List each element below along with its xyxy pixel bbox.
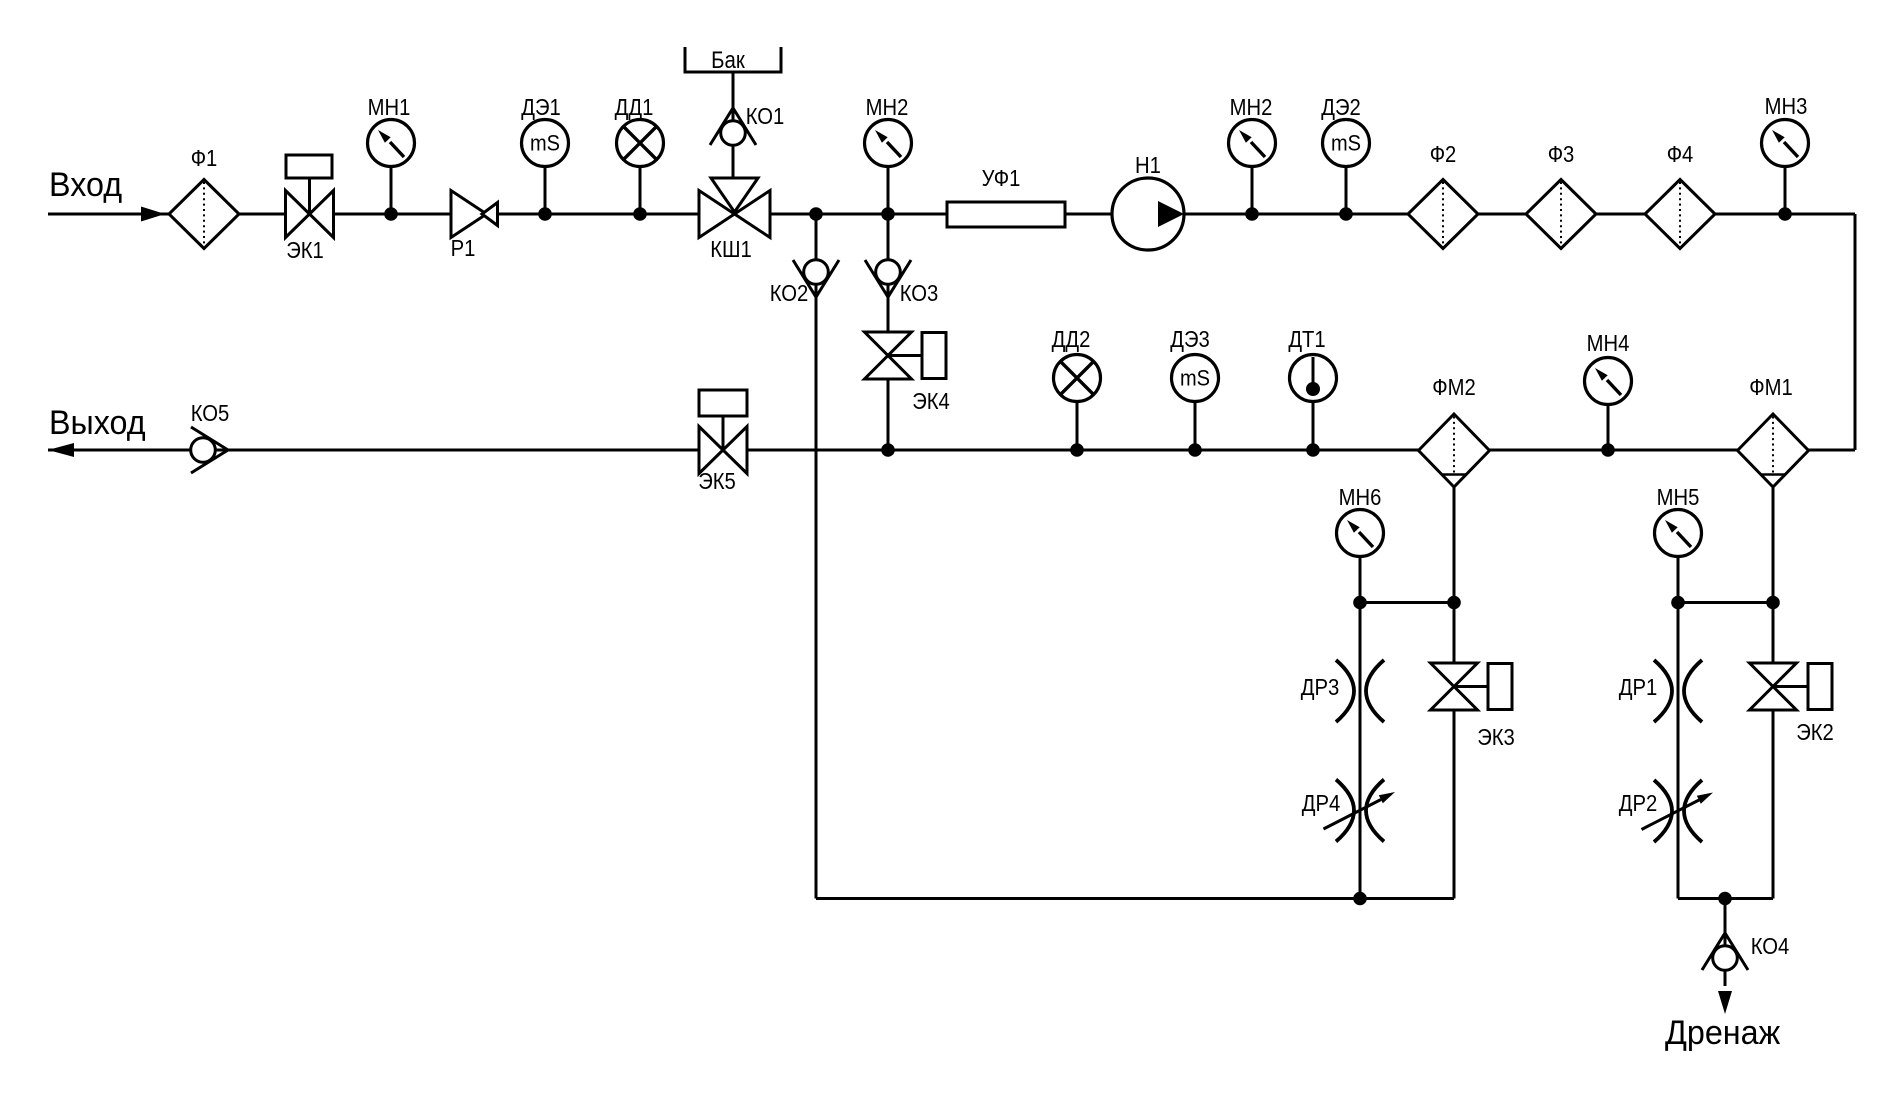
junction node МН1 [384,207,398,221]
svg-text:Ф3: Ф3 [1548,141,1575,167]
svg-text:Ф4: Ф4 [1667,141,1694,167]
valve ЭК3 actuator box [1488,664,1512,710]
filter Ф3 [1526,180,1596,249]
svg-text:Вход: Вход [49,166,122,204]
conductivity sensor ДЭ1 [522,120,569,167]
svg-text:МН6: МН6 [1339,484,1382,510]
svg-text:Н1: Н1 [1135,152,1161,178]
fixed throttle ДР1 [1654,660,1702,722]
svg-text:mS: mS [530,131,560,156]
wire vertical branch МН5/ДР1/ДР2 x=1678 [1677,557,1680,899]
svg-text:Бак: Бак [711,47,745,74]
wire stem ДЭ2 [1345,166,1348,214]
svg-text:ФМ1: ФМ1 [1749,374,1793,400]
wire stem ДЭ1 [544,166,547,214]
filter Ф4 [1645,180,1715,249]
junction node МН3 [1778,207,1792,221]
junction node ДТ1 [1306,443,1320,457]
svg-text:Р1: Р1 [451,235,476,261]
svg-text:ДД2: ДД2 [1052,326,1091,352]
junction node ФМ1 branch [1766,596,1780,610]
svg-text:КО5: КО5 [191,400,230,426]
conductivity sensor ДЭ2 [1323,120,1370,167]
junction node ДД1 [633,207,647,221]
fixed throttle ДР3 [1336,660,1384,722]
pressure gauge МН6 [1337,510,1384,557]
check valve КО1 [710,108,756,145]
svg-text:Дренаж: Дренаж [1665,1014,1780,1052]
wire tank stem (Бак to КШ1) [732,72,735,178]
valve ЭК3 body [1431,663,1478,710]
valve ЭК4 body [865,332,912,379]
junction node ДЭ2 [1339,207,1353,221]
conductivity sensor ДЭ3 [1172,355,1219,402]
wire right vertical riser x=1855 [1854,214,1857,450]
svg-text:ЭК5: ЭК5 [698,468,736,494]
wire stem МН2 (second) [1251,166,1254,214]
svg-text:ЭК4: ЭК4 [912,388,950,414]
valve ЭК1 body [286,191,334,238]
check valve КО2 [793,260,839,297]
svg-text:ЭК2: ЭК2 [1796,719,1834,745]
filter Ф1 [169,180,239,249]
wire output line (Выход) y=450 [48,449,1855,452]
reducer Р1 [451,191,498,238]
node Вход flow arrow [141,207,165,222]
pressure gauge МН1 [368,120,415,167]
wire main input line (Вход) y=214 [48,213,1855,216]
check valve КО3 [865,260,911,297]
wire vertical branch ФМ1/ЭК2 x=1773 [1772,487,1775,899]
wire stem ДД2 [1076,401,1079,450]
variable throttle ДР4 adjustment arrow [1324,792,1396,829]
svg-text:Выход: Выход [49,404,146,442]
wire vertical branch ФМ2/ЭК3 x=1454 [1453,487,1456,899]
valve ЭК5 actuator box [699,390,747,416]
junction node drain [1718,892,1732,906]
junction node КО2 branch [809,207,823,221]
pressure gauge МН4 [1585,358,1632,405]
junction node ДЭ3 [1188,443,1202,457]
pressure gauge МН2 [865,120,912,167]
wire drain stem to КО4 [1724,899,1727,987]
valve ЭК2 body [1750,663,1797,710]
svg-text:КО3: КО3 [900,280,939,306]
valve ЭК1 actuator box [286,155,332,178]
junction node МН4 [1601,443,1615,457]
svg-text:ДТ1: ДТ1 [1288,326,1325,352]
svg-text:ДД1: ДД1 [615,94,654,120]
pressure sensor ДД2 [1054,355,1101,402]
wire vertical branch through КО2 x=816 [815,214,818,899]
pressure gauge МН5 [1655,510,1702,557]
pump Н1 [1112,178,1184,250]
node Дренаж flow arrow [1718,991,1732,1014]
svg-text:МН4: МН4 [1587,330,1630,356]
valve ЭК4 actuator box [922,333,946,379]
junction node МН5 [1671,596,1685,610]
flow meter ФМ1 [1738,414,1809,487]
junction node МН2/КО3 [881,207,895,221]
pressure gauge МН3 [1762,120,1809,167]
check valve КО5 [191,427,228,473]
flow meter ФМ2 [1419,414,1490,487]
node Выход flow arrow [48,443,74,457]
pressure sensor ДД1 [617,120,664,167]
svg-text:ДЭ1: ДЭ1 [521,94,561,120]
junction node ДР4 bottom [1353,892,1367,906]
svg-text:ФМ2: ФМ2 [1432,374,1476,400]
wire bottom return line left y=898.5 [816,897,1454,900]
svg-text:МН2: МН2 [866,94,909,120]
svg-text:МН3: МН3 [1765,93,1808,119]
svg-text:Ф1: Ф1 [191,145,218,171]
wire stem ДТ1 [1312,401,1315,450]
svg-text:УФ1: УФ1 [982,165,1021,191]
svg-text:МН1: МН1 [368,94,411,120]
three-way valve КШ1 [699,178,770,238]
wire actuator stem ЭК5 [722,416,725,450]
valve ЭК5 body [699,427,747,474]
junction node МН6 [1353,596,1367,610]
pressure gauge МН2 (after pump) [1229,120,1276,167]
svg-text:КО1: КО1 [746,103,785,129]
svg-text:mS: mS [1180,366,1210,391]
svg-text:ДР3: ДР3 [1301,674,1340,700]
svg-text:МН5: МН5 [1657,484,1700,510]
tank Бак bracket [685,47,781,72]
variable throttle ДР2 [1654,780,1702,842]
junction node ЭК4 [881,443,895,457]
svg-text:ДЭ3: ДЭ3 [1170,326,1210,352]
svg-text:КШ1: КШ1 [710,236,752,262]
check valve КО4 [1702,933,1748,970]
svg-text:ЭК1: ЭК1 [286,237,324,263]
wire vertical branch through КО3/ЭК4 x=888 [887,214,890,450]
junction node ДД2 [1070,443,1084,457]
wire vertical branch МН6/ДР3/ДР4 x=1360 [1359,557,1362,899]
svg-text:ДР4: ДР4 [1302,790,1341,816]
svg-text:КО2: КО2 [770,280,809,306]
wire bottom line right y=898.5 [1678,897,1773,900]
wire actuator stem ЭК3 [1454,685,1488,688]
svg-text:mS: mS [1331,131,1361,156]
valve ЭК2 actuator box [1808,664,1832,710]
svg-text:ДЭ2: ДЭ2 [1321,94,1361,120]
UV sterilizer УФ1 [947,202,1065,227]
wire stem МН4 [1607,404,1610,450]
wire link МН6 to ФМ2 branch y=602.5 [1360,601,1454,604]
wire stem МН1 [390,166,393,214]
svg-text:ДР1: ДР1 [1619,674,1658,700]
wire stem ДД1 [639,166,642,214]
svg-text:ЭК3: ЭК3 [1477,724,1515,750]
junction node МН2 second [1245,207,1259,221]
variable throttle ДР4 [1336,780,1384,842]
svg-text:КО4: КО4 [1751,933,1790,959]
junction node ФМ2 branch [1447,596,1461,610]
wire stem ДЭ3 [1194,401,1197,450]
variable throttle ДР2 adjustment arrow [1642,793,1714,830]
svg-text:МН2: МН2 [1230,94,1273,120]
wire stem МН2 [887,166,890,214]
junction node ДЭ1 [538,207,552,221]
wire actuator stem ЭК2 [1773,685,1808,688]
wire stem МН3 [1784,166,1787,214]
svg-text:Ф2: Ф2 [1430,141,1457,167]
wire link МН5 to ФМ1 branch y=602.5 [1678,601,1773,604]
filter Ф2 [1408,180,1478,249]
wire actuator stem ЭК4 [888,354,922,357]
temperature sensor ДТ1 [1290,355,1337,402]
wire actuator stem ЭК1 [308,178,311,214]
svg-text:ДР2: ДР2 [1619,790,1658,816]
